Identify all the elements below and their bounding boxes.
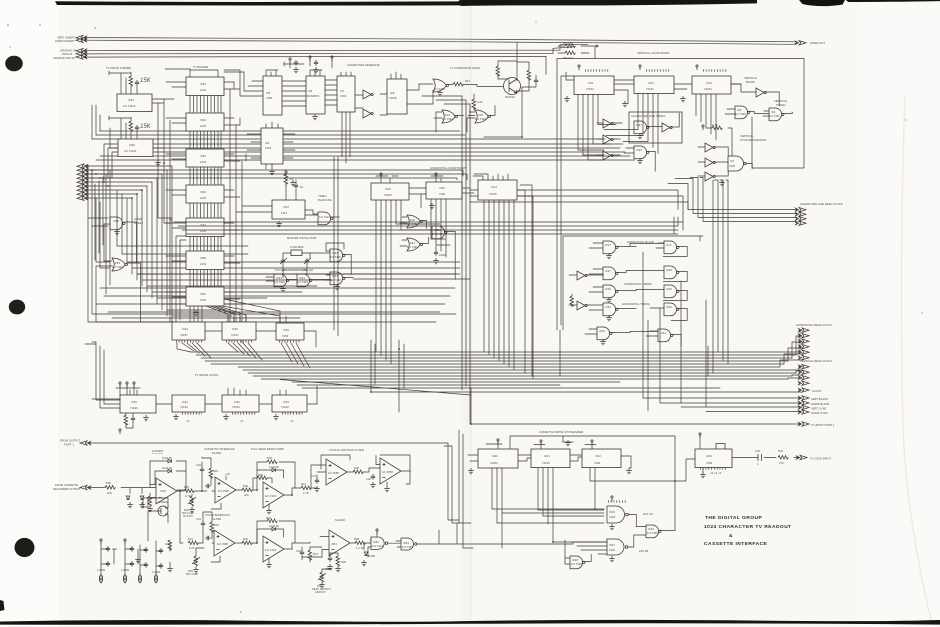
svg-text:IC58: IC58: [113, 219, 119, 223]
svg-text:R37: R37: [313, 552, 319, 556]
svg-text:R12: R12: [465, 79, 471, 83]
diode feedback row 2: [155, 466, 186, 490]
svg-text:IC30: IC30: [131, 400, 137, 404]
svg-text:TV WRITE CLOCK: TV WRITE CLOCK: [195, 373, 219, 377]
IC42 7493 box: [582, 449, 621, 468]
wire RAM column vertical bus: [190, 95, 221, 287]
svg-text:IC64: IC64: [200, 118, 206, 122]
svg-text:IC31: IC31: [182, 400, 188, 404]
svg-text:DATA IN: DATA IN: [62, 52, 72, 56]
svg-text:IC40: IC40: [492, 454, 498, 458]
variable resistor R34: [318, 569, 332, 588]
svg-text:TO INPUT PORT 1: TO INPUT PORT 1: [811, 423, 835, 427]
variable resistor R22: [182, 494, 196, 518]
RAM IC66 2102: [186, 185, 224, 203]
svg-text:100K: 100K: [165, 542, 172, 546]
IC31 74193: [172, 395, 205, 412]
svg-text:74163: 74163: [586, 87, 594, 91]
diode slicer ref: [361, 543, 375, 566]
connector TO CASS INPUT: [797, 455, 808, 459]
svg-text:IC51: IC51: [331, 542, 337, 546]
connector FROM OUTPUT PORT 1: [60, 439, 91, 447]
ground osc: [334, 284, 340, 290]
RAM IC64 2102: [186, 113, 224, 131]
svg-text:4.000 MHZ: 4.000 MHZ: [290, 245, 304, 249]
svg-text:FILTER: FILTER: [212, 517, 221, 521]
svg-text:IC47: IC47: [609, 543, 615, 547]
svg-text:IC24: IC24: [332, 251, 338, 255]
gate IC34b nand: [658, 329, 673, 342]
inverter hblank 1: [577, 271, 587, 280]
resistors top left of VC: [558, 41, 598, 60]
svg-text:IC22: IC22: [283, 205, 289, 209]
RAM IC67 2102: [186, 218, 224, 237]
IC32 74193: [222, 395, 259, 412]
wire IC2 top pins: [109, 116, 137, 139]
svg-text:7413: 7413: [281, 211, 288, 215]
svg-text:2.2K: 2.2K: [477, 100, 483, 104]
svg-text:CHARACTER LINE READ CLOCK: CHARACTER LINE READ CLOCK: [800, 202, 843, 206]
ground RAM bottom: [193, 310, 199, 316]
svg-text:IC25: IC25: [385, 187, 391, 191]
inverter vsync 2: [705, 158, 715, 167]
svg-text:IC59: IC59: [114, 261, 120, 265]
svg-text:1/4 7400: 1/4 7400: [571, 562, 582, 566]
svg-text:IC20: IC20: [409, 218, 415, 222]
IC36 74157: [276, 323, 304, 340]
wire 193 tops from bundle: [130, 388, 286, 395]
svg-text:IC61: IC61: [128, 98, 134, 102]
svg-text:IC9: IC9: [771, 110, 776, 114]
svg-text:IC37: IC37: [636, 123, 642, 127]
svg-text:74193: 74193: [384, 193, 392, 197]
wire cassette box interconnect: [468, 455, 631, 461]
svg-text:VERT BLANK: VERT BLANK: [811, 397, 828, 401]
wire from output port line: [87, 443, 459, 523]
svg-text:FILTER: FILTER: [212, 451, 221, 455]
opamp C detector: [263, 482, 284, 508]
gate IC17a nand: [603, 241, 618, 254]
svg-text:R50: R50: [106, 481, 112, 485]
ground IC2: [155, 160, 161, 166]
diode clamp pair: [126, 496, 145, 508]
wire clrc bends up tops: [668, 178, 703, 184]
svg-text:1/4 7402: 1/4 7402: [442, 117, 453, 121]
svg-text:+15: +15: [225, 472, 230, 476]
svg-text:HORIZONTAL TIMING: HORIZONTAL TIMING: [624, 282, 652, 286]
IC4 7493: [261, 128, 283, 164]
svg-text:IC66: IC66: [200, 190, 206, 194]
IC26 7490: [426, 182, 462, 199]
ground 193 row: [143, 415, 149, 421]
IC14 74165 left of fold: [478, 180, 517, 200]
wire RAM right rails down: [230, 82, 246, 343]
svg-text:IC8: IC8: [390, 91, 395, 95]
svg-text:FROM OUTPUT: FROM OUTPUT: [60, 439, 80, 443]
inverter pair char gen: [363, 90, 373, 99]
svg-text:IC11: IC11: [588, 81, 594, 85]
top bar right blob: [799, 0, 845, 6]
svg-text:1/2 74123: 1/2 74123: [124, 149, 137, 153]
cap C48: [366, 474, 376, 488]
svg-text:IC46: IC46: [648, 527, 654, 531]
wire RAM side stubs right: [224, 82, 240, 299]
svg-text:VERTICAL: VERTICAL: [774, 99, 788, 103]
svg-text:IC41: IC41: [544, 454, 550, 458]
wire cassette box bottoms down: [492, 468, 595, 548]
svg-text:IC28: IC28: [666, 268, 672, 272]
RAM IC63 2102: [186, 77, 224, 96]
RAM IC68 2102: [186, 251, 224, 270]
svg-text:2102: 2102: [200, 229, 207, 233]
svg-text:IC23: IC23: [276, 276, 282, 280]
gate IC20 nor: [407, 215, 422, 228]
opamp B filter: [215, 477, 236, 503]
svg-text:CLOCK: CLOCK: [812, 389, 822, 393]
+5 pin gates analog: [376, 529, 378, 537]
ground countdown: [429, 203, 435, 209]
punch hole 1: [5, 56, 23, 72]
svg-text:7490: 7490: [266, 96, 273, 100]
svg-text:HORIZ SYNC: HORIZ SYNC: [811, 411, 828, 415]
svg-text:8.2K: 8.2K: [189, 546, 195, 550]
IC8 74165: [387, 79, 407, 114]
ground cassette boxes: [468, 468, 474, 474]
gate IC18 7402: [475, 110, 490, 123]
wire analog gates to cassette: [370, 523, 573, 544]
wire fan verticals down: [132, 166, 172, 322]
svg-text:IC26: IC26: [439, 186, 445, 190]
wire countdown stair right: [396, 224, 450, 245]
wire bundle right steps to VRC chevrons: [788, 366, 802, 379]
ground opamp C: [266, 508, 272, 514]
resistor transistor collector: [496, 66, 500, 76]
ground gate IC9: [437, 90, 443, 96]
connector chevrons bus A: [76, 36, 87, 40]
gate IC24b nand osc: [330, 272, 345, 285]
gate IC50 nand analog: [401, 538, 417, 550]
svg-text:1 MFD: 1 MFD: [121, 568, 129, 572]
wire hblank vertical drops to sync outputs: [560, 252, 706, 411]
wire IC47 connections: [573, 535, 646, 554]
resistor R40 after B: [242, 488, 252, 492]
svg-text:7493: 7493: [706, 461, 713, 465]
ground hblank gates: [606, 253, 612, 259]
resistor R41: [301, 486, 311, 490]
variable cap left: [275, 258, 287, 272]
ground IC43: [700, 472, 706, 478]
svg-text:1/2 741S: 1/2 741S: [265, 494, 276, 498]
svg-text:15K: 15K: [140, 124, 152, 130]
wire RAM side stubs left: [166, 82, 186, 297]
wire char row top pins: [266, 70, 401, 79]
svg-text:1/4 7400: 1/4 7400: [647, 531, 658, 535]
wire IC1 IC2 outputs: [110, 99, 174, 163]
svg-text:IC63: IC63: [200, 82, 206, 86]
wire fold verticals feed: [422, 96, 470, 104]
svg-text:IC6: IC6: [308, 89, 313, 93]
svg-text:7493: 7493: [265, 146, 272, 150]
+5 pin IC43: [699, 433, 701, 449]
wire IC22 to gate: [236, 206, 340, 217]
wire gates inputs: [434, 112, 475, 132]
wire char column verticals down: [334, 112, 350, 336]
gate IC46 nand: [646, 525, 661, 538]
wire vsync connections: [698, 146, 752, 176]
svg-text:2102: 2102: [200, 88, 207, 92]
opamp F slicer: [329, 530, 350, 556]
svg-text:C40: C40: [196, 463, 202, 467]
svg-text:BLANK: BLANK: [746, 80, 755, 84]
crystal 4MHz: [284, 245, 310, 256]
wire C2 out: [285, 542, 311, 549]
IC11 74163: [574, 76, 614, 95]
wire bus A (2 lines, insert bus): [83, 38, 797, 45]
svg-text:+5: +5: [186, 419, 190, 423]
IC35 74157: [222, 322, 256, 340]
wire IC6-IC7 connections: [325, 80, 337, 105]
svg-text:CHARACTER GENERATE: CHARACTER GENERATE: [347, 63, 380, 67]
svg-text:2102: 2102: [200, 298, 207, 302]
svg-text:LIMITER: LIMITER: [152, 449, 163, 453]
mux row: wire tops from RAM: [228, 314, 286, 323]
svg-text:IC35: IC35: [232, 327, 238, 331]
connector VERTICAL READ CLOCK: [799, 359, 833, 385]
wire gate inputs analog: [368, 540, 401, 557]
wire bundle right steps to HRC chevrons: [780, 330, 802, 367]
wire RAM bottom fan to mux row: [190, 299, 280, 322]
wire IC45 out: [628, 515, 646, 527]
svg-text:1/2 1558: 1/2 1558: [382, 470, 393, 474]
wire gate out right: [96, 254, 436, 322]
svg-text:74193: 74193: [180, 405, 188, 409]
svg-text:1/4 7400: 1/4 7400: [330, 255, 341, 259]
svg-text:2N3819: 2N3819: [158, 500, 168, 504]
svg-text:C41: C41: [196, 517, 202, 521]
svg-text:1N4148: 1N4148: [162, 456, 172, 460]
resistor R32: [242, 541, 252, 545]
svg-text:1024 CHARACTER TV READOUT: 1024 CHARACTER TV READOUT: [704, 524, 792, 530]
resistor above IC2: [129, 121, 133, 131]
svg-text:IC5: IC5: [266, 91, 271, 95]
detector2 top loop: [257, 516, 295, 543]
svg-text:1/4 7400: 1/4 7400: [297, 280, 308, 284]
wire IC7-inverters-IC8: [355, 94, 387, 115]
IC34 74157: [172, 322, 205, 340]
bandpass RC network: [196, 512, 220, 543]
svg-text:RECORDER OUTPUT: RECORDER OUTPUT: [53, 487, 81, 491]
inverter hblank 2 with resistor: [570, 294, 587, 310]
IC5 7490: [263, 76, 282, 115]
bottom-left corner mark: [0, 600, 5, 611]
svg-text:IC-F: IC-F: [666, 243, 672, 247]
peak detect components below slicer: [325, 553, 347, 572]
wire E out down to slicer: [373, 456, 411, 472]
IC12 74163: [634, 76, 674, 94]
wire 193 row interconnect: [156, 386, 317, 404]
resistor R46: [353, 470, 363, 474]
gate IC40 big nand vsync: [728, 156, 746, 171]
wire right verticals x718-728: [708, 180, 728, 376]
ground char line: [637, 133, 643, 139]
IC25 74193: [371, 183, 409, 200]
wire clrc extra approach lines: [470, 190, 688, 214]
svg-text:IC53: IC53: [403, 541, 409, 545]
svg-text:IC17: IC17: [605, 243, 611, 247]
variable resistor R25: [186, 548, 204, 576]
inverter column char line: [603, 119, 613, 128]
svg-text:IC60: IC60: [129, 143, 135, 147]
svg-text:1/2 7400: 1/2 7400: [735, 112, 746, 116]
wire mux interconnect: [205, 331, 316, 347]
svg-text:1/2 7440: 1/2 7440: [769, 114, 780, 118]
svg-text:R43: R43: [778, 449, 784, 453]
svg-text:R8 2.2K: R8 2.2K: [563, 56, 573, 60]
+5 ticks above VC boxes: [578, 65, 727, 71]
IC30 74193: [120, 395, 156, 413]
filter RC network: [196, 457, 219, 488]
wire left fan into mesh: [84, 166, 172, 198]
notch on IC43 top: [716, 444, 725, 450]
wire mesh horizontals to right: [137, 274, 457, 316]
svg-text:1N4148: 1N4148: [269, 465, 279, 469]
svg-text:1/2 1558: 1/2 1558: [217, 542, 228, 546]
connector HORIZ OUT: [796, 41, 807, 45]
IC40 74163 box: [478, 449, 518, 468]
+5 resistor cluster above char row: [284, 56, 333, 73]
74193 row: +5 cluster above IC30: [116, 382, 140, 395]
wire mux bottom fan into bundle: [177, 343, 310, 368]
svg-text:VIDEO: VIDEO: [318, 194, 327, 198]
inverter vsync 1: [705, 143, 715, 152]
svg-text:220pF: 220pF: [439, 253, 447, 257]
svg-text:7420: 7420: [609, 548, 616, 552]
gate IC47 big nand: [607, 539, 628, 555]
gate IC29 nand: [603, 285, 618, 298]
svg-text:R20: R20: [184, 485, 190, 489]
svg-text:1/4 7400: 1/4 7400: [402, 545, 413, 549]
gate IC36b nand in box: [634, 146, 649, 159]
inverter vertical blank: [756, 88, 766, 97]
IC13 74163: [692, 76, 731, 94]
wire IC38 output loop to frame: [751, 117, 753, 168]
wire vtiming gates: [725, 109, 792, 116]
gate IC49b nand analog: [371, 537, 388, 549]
wire vblank: [731, 84, 779, 106]
wire hblank gate connections: [569, 243, 687, 346]
ground IC47: [609, 556, 615, 562]
svg-text:IC65: IC65: [200, 154, 206, 158]
svg-text:2102: 2102: [200, 124, 207, 128]
svg-text:7420: 7420: [729, 164, 736, 168]
wire mesh mid-left horizontals lower: [88, 190, 460, 322]
connector TO INPUT PORT 1: [799, 422, 810, 426]
IC7 74165: [337, 76, 355, 112]
svg-text:74160: 74160: [542, 461, 550, 465]
opamp C2 detector2: [263, 536, 284, 562]
detector input resistors: [253, 473, 272, 490]
wire home-reset drops: [88, 166, 110, 294]
svg-text:74163: 74163: [704, 87, 712, 91]
gate IC33b nand: [597, 327, 612, 340]
wire limiter in/out: [148, 485, 184, 508]
wire node to filter: [194, 473, 215, 491]
svg-text:IC23: IC23: [299, 276, 305, 280]
connector FROM CASSETTE RECORDER OUTPUT: [53, 483, 91, 491]
svg-text:HORIZONTAL TIMING: HORIZONTAL TIMING: [622, 302, 650, 306]
svg-text:IC24: IC24: [332, 274, 338, 278]
svg-text:IC33: IC33: [283, 400, 289, 404]
connector VERT BLANK: [799, 396, 810, 400]
svg-text:R24: R24: [214, 523, 220, 527]
svg-text:1N4B: 1N4B: [368, 554, 375, 558]
svg-text:HORIZONTAL COUNTDOWN: HORIZONTAL COUNTDOWN: [430, 166, 467, 170]
svg-text:VERTICAL: VERTICAL: [744, 76, 758, 80]
wire big bundle horizontals: [191, 352, 800, 388]
wire staircase right of IC14: [517, 185, 533, 379]
+5 pins cassette boxes: [486, 439, 596, 449]
gate IC9 7402 video out: [433, 79, 448, 92]
wire mid band continues right of fold: [455, 139, 635, 160]
svg-text:500 OHM: 500 OHM: [186, 572, 198, 576]
svg-text:IC13: IC13: [706, 81, 712, 85]
resistor R37 peak: [308, 547, 319, 562]
svg-text:270 HZ BANDPASS: 270 HZ BANDPASS: [205, 513, 230, 517]
wire IC8 out to gate: [407, 84, 433, 104]
svg-text:IC7: IC7: [340, 89, 345, 93]
svg-text:2N2222: 2N2222: [505, 95, 515, 99]
svg-text:IC29: IC29: [605, 287, 611, 291]
wire countdown bottoms down: [376, 199, 446, 364]
svg-text:+5: +5: [290, 419, 294, 423]
svg-text:R23: R23: [213, 469, 219, 473]
wire bundle from left into clrc: [170, 213, 683, 322]
svg-text:IC?: IC?: [730, 159, 735, 163]
gate IC45 big nand: [607, 506, 628, 523]
svg-text:IC34: IC34: [182, 327, 188, 331]
wire IC46 out up loop: [659, 529, 675, 531]
gate IC37 nand in box: [634, 121, 649, 134]
capacitor C20: [755, 449, 762, 466]
svg-text:.04: .04: [299, 185, 303, 189]
gate IC48 nand: [570, 556, 585, 569]
punch hole 2: [9, 300, 25, 315]
top scanner bar: [55, 0, 757, 6]
wire to input port 1: [471, 388, 801, 424]
opamp D 3pole first: [326, 459, 347, 485]
connector HORIZ SYNC: [799, 410, 810, 414]
svg-text:7493: 7493: [340, 94, 347, 98]
svg-text:74163: 74163: [490, 461, 498, 465]
diode feedback row 1: [150, 456, 186, 484]
IC41 74160 box: [531, 449, 570, 468]
wire slicer connections: [302, 537, 370, 558]
svg-text:1/4 7400: 1/4 7400: [274, 280, 285, 284]
connector HORIZ BLANK: [799, 401, 810, 405]
wire long verticals at fold: [462, 96, 470, 424]
connector chevrons bus B: [76, 49, 87, 53]
right page edge crease: [901, 95, 931, 620]
wire osc gates: [266, 243, 470, 281]
wire fan lines extended to IC14: [84, 170, 467, 180]
opamp B2 bandpass: [214, 530, 235, 556]
svg-text:R42: R42: [267, 456, 273, 460]
gate IC32b nand: [664, 303, 679, 316]
svg-text:R36: R36: [266, 516, 272, 520]
resistor R12 to transistor base: [453, 82, 463, 86]
connector VERT SYNC: [799, 405, 810, 409]
wire IC5-IC6 connections: [224, 70, 306, 106]
